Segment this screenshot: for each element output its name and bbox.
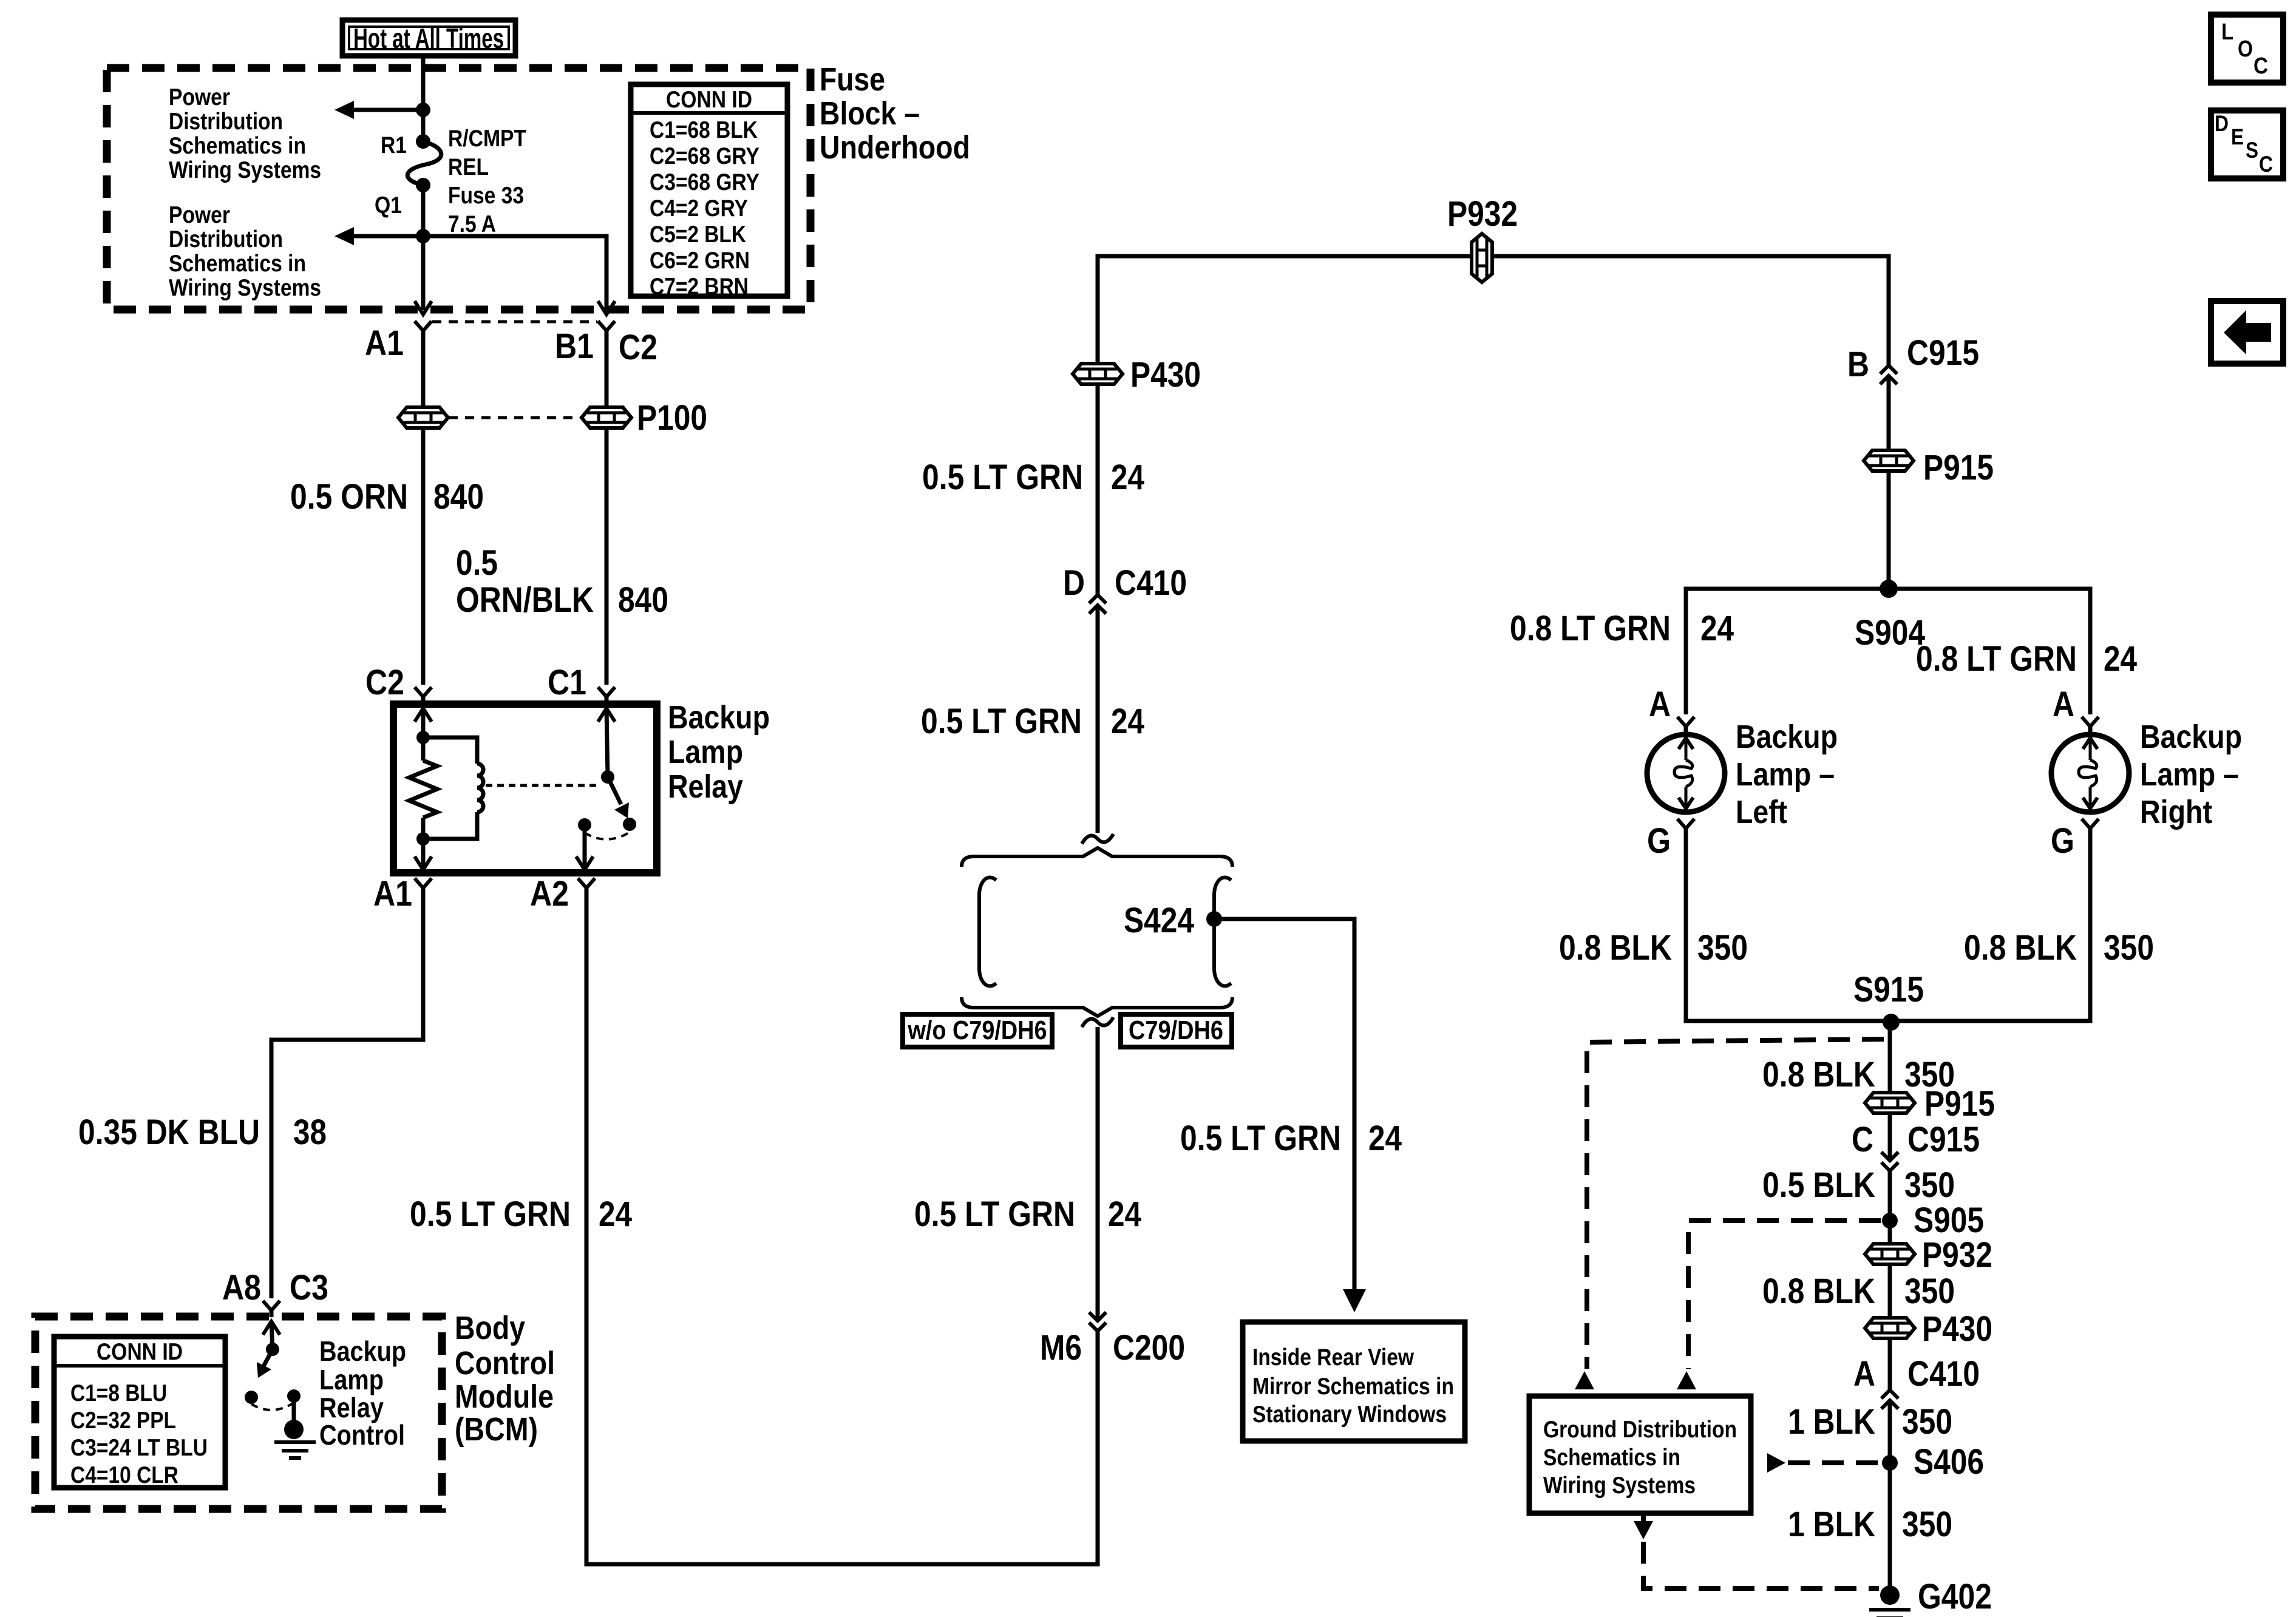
resistor (relay): [409, 737, 437, 839]
svg-text:0.8 BLK: 0.8 BLK: [1762, 1055, 1875, 1094]
CONN ID table (fuse block): [631, 84, 787, 300]
connector C410 (double chevron up): [1089, 595, 1106, 614]
svg-text:Relay: Relay: [668, 768, 743, 805]
banner box "Hot at All Times": [342, 20, 515, 56]
connector at right lamp A: [2082, 717, 2099, 727]
coil (relay): [423, 737, 483, 839]
connector below relay A2: [578, 878, 595, 888]
wire from fuse to lower junction: [421, 185, 426, 310]
svg-text:Underhood: Underhood: [820, 129, 970, 166]
svg-text:G: G: [2051, 821, 2074, 861]
svg-text:Q1: Q1: [375, 192, 402, 219]
switch fixed contact node: [578, 818, 591, 832]
svg-text:A2: A2: [530, 874, 569, 914]
wire B1 to P100: [605, 331, 609, 407]
fuse block dashed box: [107, 68, 810, 310]
wire A2 down and right (0.5 LT GRN 24): [586, 888, 1098, 1564]
svg-text:S: S: [2246, 138, 2258, 163]
arrow exiting fuse block at A1: [415, 301, 432, 314]
svg-text:D: D: [2215, 111, 2229, 136]
svg-text:0.5 LT GRN: 0.5 LT GRN: [410, 1195, 571, 1234]
svg-text:Module: Module: [455, 1378, 554, 1415]
arrowhead into Inside Rear View box: [1343, 1289, 1366, 1312]
svg-text:Control: Control: [319, 1419, 405, 1451]
svg-text:0.5 ORN: 0.5 ORN: [290, 477, 408, 517]
wire contact to A2 with arrow out of relay: [576, 825, 593, 870]
svg-text:Schematics in: Schematics in: [169, 133, 306, 159]
svg-text:C915: C915: [1907, 1120, 1980, 1159]
svg-text:C6=2 GRN: C6=2 GRN: [650, 248, 750, 274]
BCM switch pivot node: [266, 1343, 279, 1356]
svg-text:C5=2 BLK: C5=2 BLK: [650, 222, 746, 248]
reference box Inside Rear View Mirror: [1243, 1322, 1465, 1441]
svg-text:350: 350: [1904, 1272, 1955, 1311]
connector C410 (double chevron up): [1881, 1390, 1898, 1409]
wire 0.5 LT GRN 24 (below C410): [1096, 605, 1100, 833]
grommet P932 (inline, vertical): [1472, 234, 1492, 282]
dashed reference from S915: [1587, 1039, 1884, 1369]
svg-text:O: O: [2238, 36, 2253, 62]
svg-text:A: A: [1853, 1354, 1875, 1394]
LOC index box: [2211, 15, 2283, 83]
wire S905 to P932: [1888, 1221, 1892, 1244]
top brace: [962, 848, 1232, 867]
svg-text:Stationary Windows: Stationary Windows: [1252, 1402, 1447, 1428]
svg-text:M6: M6: [1040, 1328, 1082, 1368]
connector C915 (double chevron up): [1880, 365, 1897, 384]
svg-text:Left: Left: [1736, 794, 1787, 830]
switch pivot node: [601, 770, 614, 784]
svg-text:Ground Distribution: Ground Distribution: [1543, 1417, 1737, 1443]
svg-text:C4=10 CLR: C4=10 CLR: [70, 1462, 178, 1488]
svg-text:0.8 LT GRN: 0.8 LT GRN: [1510, 609, 1671, 648]
wire P915 to C915 connector: [1888, 1113, 1892, 1161]
splice S406 node: [1882, 1455, 1898, 1471]
wire S915 down ground chain: [1888, 1021, 1892, 1093]
svg-text:S915: S915: [1853, 970, 1924, 1009]
connector C915 (double chevron down): [1881, 1152, 1898, 1171]
svg-text:Wiring Systems: Wiring Systems: [1543, 1473, 1696, 1499]
svg-text:(BCM): (BCM): [455, 1411, 538, 1448]
backup lamp right: [2051, 727, 2129, 812]
grommet P915 (top): [1864, 450, 1914, 471]
wire resistor bottom to A1 with arrow out of relay: [415, 839, 432, 870]
backup lamp left: [1647, 727, 1725, 812]
svg-text:840: 840: [618, 580, 668, 620]
wire P430 to C410: [1888, 1338, 1892, 1390]
svg-text:Distribution: Distribution: [169, 226, 283, 253]
grommet P100 (right): [582, 407, 631, 428]
svg-text:S406: S406: [1914, 1442, 1984, 1482]
svg-text:P932: P932: [1447, 194, 1518, 234]
note Power Distribution Schematics (top): [169, 84, 321, 183]
svg-text:C2=32 PPL: C2=32 PPL: [70, 1408, 176, 1434]
connector at relay C2: [415, 687, 432, 697]
svg-text:D: D: [1063, 563, 1085, 603]
fuse R/CMPT REL Fuse 33 7.5A: [407, 134, 441, 192]
svg-text:350: 350: [1904, 1165, 1955, 1205]
switch arm end node: [623, 818, 636, 831]
svg-text:1 BLK: 1 BLK: [1788, 1402, 1875, 1442]
dashed travel arc: [585, 832, 630, 839]
svg-text:24: 24: [1111, 702, 1144, 741]
svg-text:Lamp –: Lamp –: [1736, 756, 1835, 793]
svg-text:C3=24 LT BLU: C3=24 LT BLU: [70, 1435, 208, 1461]
wire break symbol (below brace): [1082, 1017, 1113, 1027]
svg-text:350: 350: [1902, 1505, 1952, 1544]
connector at right lamp G: [2082, 819, 2099, 829]
wire C915 to P915: [1887, 376, 1891, 450]
svg-text:Body: Body: [455, 1310, 525, 1346]
wire brace to M6 connector: [1096, 1027, 1100, 1321]
svg-text:Schematics in: Schematics in: [1543, 1445, 1680, 1471]
svg-text:Backup: Backup: [2140, 719, 2242, 755]
svg-text:Lamp: Lamp: [668, 734, 743, 770]
wire S406 to G402: [1888, 1463, 1892, 1592]
dashed reference from S905: [1688, 1221, 1881, 1369]
svg-text:Power: Power: [169, 202, 230, 228]
svg-text:Right: Right: [2140, 794, 2212, 830]
svg-text:B: B: [1847, 345, 1869, 384]
triangle reference (left): [1575, 1371, 1594, 1389]
svg-text:C2: C2: [619, 328, 657, 367]
connector below relay A1: [415, 878, 432, 888]
svg-text:24: 24: [2104, 639, 2137, 679]
svg-text:C4=2 GRY: C4=2 GRY: [650, 195, 748, 222]
back arrow box: [2211, 301, 2283, 364]
dashed connector link A1-B1: [432, 320, 597, 324]
svg-text:840: 840: [433, 477, 484, 517]
grommet P100 (left): [398, 407, 448, 428]
arrow into relay at C2: [415, 708, 432, 737]
wire 0.5 BLK segment: [1888, 1171, 1892, 1221]
svg-text:Schematics in: Schematics in: [169, 251, 306, 277]
svg-text:C200: C200: [1113, 1328, 1185, 1368]
svg-text:Backup: Backup: [1736, 719, 1838, 755]
svg-text:S905: S905: [1914, 1201, 1984, 1240]
svg-text:Hot at All Times: Hot at All Times: [353, 22, 504, 54]
connector C200 (double chevron down): [1089, 1312, 1106, 1331]
option box w/o C79/DH6: [903, 1014, 1052, 1047]
wire branch to B1 terminal: [423, 236, 606, 310]
svg-text:Control: Control: [455, 1345, 555, 1381]
svg-text:C79/DH6: C79/DH6: [1129, 1015, 1223, 1045]
stem C1 into relay: [605, 697, 609, 705]
stem C2 into relay: [421, 697, 426, 705]
svg-text:Mirror Schematics in: Mirror Schematics in: [1252, 1374, 1454, 1400]
connector C2(fuse side) at A1: [415, 321, 432, 331]
svg-text:ORN/BLK: ORN/BLK: [456, 580, 594, 620]
svg-text:Distribution: Distribution: [169, 109, 283, 135]
svg-text:0.5 LT GRN: 0.5 LT GRN: [922, 458, 1083, 497]
svg-text:0.5 LT GRN: 0.5 LT GRN: [1180, 1119, 1341, 1158]
svg-text:P430: P430: [1130, 355, 1201, 395]
svg-text:C1: C1: [548, 663, 586, 702]
svg-text:L: L: [2221, 19, 2233, 45]
svg-text:38: 38: [293, 1113, 327, 1152]
svg-text:C2=68 GRY: C2=68 GRY: [650, 143, 759, 169]
connector at left lamp G: [1677, 819, 1694, 829]
label Backup Lamp - Left: [1736, 719, 1838, 830]
svg-text:Inside Rear View: Inside Rear View: [1252, 1344, 1415, 1371]
relay box Backup Lamp Relay: [393, 704, 657, 873]
wire break symbol (above brace): [1082, 834, 1113, 844]
triangle reference (right): [1677, 1371, 1696, 1389]
label Body Control Module (BCM): [455, 1310, 555, 1448]
BCM switch right contact node: [287, 1389, 301, 1403]
svg-text:CONN ID: CONN ID: [666, 87, 752, 113]
reference box Ground Distribution: [1529, 1396, 1751, 1513]
svg-text:Backup: Backup: [668, 699, 770, 736]
svg-text:Block –: Block –: [820, 95, 920, 132]
wire S424 branch right/down: [1214, 919, 1354, 1290]
arrow into relay at C1: [598, 708, 615, 777]
svg-text:24: 24: [599, 1195, 632, 1234]
svg-text:0.5 LT GRN: 0.5 LT GRN: [921, 702, 1082, 741]
svg-text:C1=8 BLU: C1=8 BLU: [70, 1380, 167, 1406]
svg-text:Wiring Systems: Wiring Systems: [169, 275, 321, 301]
svg-text:C: C: [2254, 53, 2268, 79]
svg-text:A: A: [2053, 685, 2074, 724]
label Backup Lamp Relay Control: [319, 1335, 406, 1451]
svg-text:Fuse 33: Fuse 33: [448, 183, 524, 209]
svg-text:0.8 LT GRN: 0.8 LT GRN: [1916, 639, 2077, 679]
left bracket (splice group): [979, 878, 996, 986]
svg-text:CONN ID: CONN ID: [97, 1339, 183, 1365]
svg-text:A8: A8: [222, 1268, 261, 1307]
wire 0.5 LT GRN 24 (above D C410): [1096, 384, 1100, 595]
svg-text:Lamp: Lamp: [319, 1364, 384, 1395]
svg-text:C410: C410: [1115, 563, 1187, 603]
wire A1 to P100: [421, 331, 426, 407]
wire P932 to P430: [1888, 1264, 1892, 1318]
svg-text:350: 350: [1902, 1402, 1952, 1442]
svg-text:S424: S424: [1124, 901, 1194, 940]
BCM switch fixed contact node: [245, 1391, 258, 1404]
svg-text:C1=68 BLK: C1=68 BLK: [650, 117, 758, 143]
wire label 0.5 ORN/BLK: [456, 543, 594, 620]
svg-text:0.5: 0.5: [456, 543, 498, 583]
svg-text:24: 24: [1700, 609, 1734, 648]
splice S905 node: [1882, 1213, 1898, 1229]
svg-text:P915: P915: [1923, 448, 1994, 487]
BCM dashed box: [35, 1317, 442, 1509]
svg-text:0.8 BLK: 0.8 BLK: [1762, 1272, 1875, 1311]
connector at left lamp A: [1677, 717, 1694, 727]
svg-text:S904: S904: [1855, 613, 1925, 653]
svg-text:0.5 BLK: 0.5 BLK: [1762, 1165, 1875, 1205]
grommet P932 (chain): [1865, 1244, 1915, 1264]
svg-text:P100: P100: [637, 398, 707, 438]
ground (BCM internal): [274, 1396, 316, 1458]
svg-text:1 BLK: 1 BLK: [1788, 1505, 1875, 1544]
svg-text:C410: C410: [1907, 1354, 1980, 1394]
svg-text:0.5 LT GRN: 0.5 LT GRN: [914, 1195, 1075, 1234]
right bracket (splice group): [1214, 878, 1231, 986]
svg-text:E: E: [2231, 124, 2244, 149]
wire P915 to S904: [1887, 471, 1891, 589]
svg-text:G: G: [1647, 821, 1671, 861]
grommet P915 (chain): [1865, 1093, 1915, 1113]
wire lamp feed bus: [1686, 589, 2090, 714]
splice S915 node: [1883, 1014, 1900, 1031]
dashed link between P100 grommets: [449, 416, 581, 419]
ground G402: [1869, 1585, 1911, 1617]
svg-text:R/CMPT: R/CMPT: [448, 126, 526, 152]
svg-text:Power: Power: [169, 84, 230, 110]
svg-text:24: 24: [1368, 1119, 1402, 1158]
label Backup Lamp - Right: [2140, 719, 2242, 830]
svg-text:P430: P430: [1922, 1309, 1992, 1349]
node coil bottom: [416, 832, 430, 846]
connector at relay C1: [598, 687, 615, 697]
arrow exiting fuse block at B1: [598, 301, 615, 314]
note Power Distribution Schematics (lower): [169, 202, 321, 301]
svg-text:R1: R1: [381, 132, 407, 158]
dashed actuator link: [486, 784, 601, 787]
svg-text:350: 350: [1697, 928, 1748, 968]
splice S904 node: [1880, 580, 1898, 598]
wire 0.5 ORN 840: [421, 428, 426, 685]
grommet P430 (middle): [1073, 364, 1123, 384]
wire 1 BLK segment: [1888, 1400, 1892, 1463]
wire lamp ground bus: [1686, 829, 2090, 1021]
wire A1 to BCM (0.35 DK BLU 38): [271, 888, 423, 1298]
svg-text:A: A: [1649, 685, 1671, 724]
svg-text:0.8 BLK: 0.8 BLK: [1559, 928, 1672, 968]
wire top horizontal P932 run: [1098, 256, 1889, 407]
svg-text:0.35 DK BLU: 0.35 DK BLU: [78, 1113, 260, 1152]
grommet P430 (chain): [1865, 1318, 1915, 1338]
svg-text:C2: C2: [365, 663, 404, 702]
svg-text:P932: P932: [1922, 1235, 1992, 1275]
switch arm with arrowhead: [608, 777, 629, 818]
svg-text:Fuse: Fuse: [820, 61, 885, 98]
wire arrow to Power Distribution schematics (lower): [335, 227, 423, 245]
wire 0.5 ORN/BLK 840: [605, 428, 609, 685]
svg-text:P915: P915: [1924, 1084, 1995, 1124]
label Backup Lamp Relay: [668, 699, 770, 805]
svg-text:C3: C3: [290, 1268, 328, 1307]
dashed reference to S406: [1788, 1460, 1880, 1465]
svg-text:C: C: [1852, 1120, 1873, 1159]
arrow into BCM: [263, 1321, 280, 1349]
BCM switch arm with arrowhead: [257, 1349, 273, 1378]
svg-text:C3=68 GRY: C3=68 GRY: [650, 169, 759, 195]
dashed travel arc (BCM): [251, 1403, 294, 1410]
svg-text:Wiring Systems: Wiring Systems: [169, 157, 321, 183]
svg-text:A1: A1: [373, 874, 412, 914]
splice S424 node: [1206, 911, 1222, 927]
svg-text:REL: REL: [448, 154, 489, 180]
CONN ID table (BCM): [54, 1337, 225, 1488]
fuse value label: [448, 126, 526, 237]
node junction to Power Distribution (lower): [416, 229, 430, 243]
bottom brace: [962, 997, 1232, 1016]
connector at B1: [598, 321, 615, 331]
option box C79/DH6: [1121, 1014, 1232, 1047]
svg-text:A1: A1: [365, 324, 404, 363]
DESC index box: [2211, 110, 2283, 178]
svg-text:C: C: [2259, 152, 2273, 177]
svg-text:Lamp –: Lamp –: [2140, 756, 2239, 793]
svg-text:350: 350: [2104, 928, 2154, 968]
dashed reference below Ground box to G402: [1634, 1513, 1879, 1588]
svg-text:Backup: Backup: [319, 1335, 406, 1367]
triangle reference (S406): [1767, 1453, 1785, 1473]
svg-text:B1: B1: [555, 327, 594, 366]
node coil top: [416, 731, 430, 744]
svg-text:0.8 BLK: 0.8 BLK: [1964, 928, 2077, 968]
wire from Hot box into fuse block: [421, 56, 426, 141]
svg-text:C915: C915: [1907, 333, 1979, 373]
label Fuse Block - Underhood: [820, 61, 970, 166]
svg-text:w/o C79/DH6: w/o C79/DH6: [908, 1015, 1047, 1045]
svg-text:7.5 A: 7.5 A: [448, 211, 496, 237]
svg-text:24: 24: [1111, 458, 1144, 497]
wire arrow to Power Distribution schematics (top): [335, 101, 423, 119]
svg-text:G402: G402: [1918, 1577, 1992, 1616]
node junction to Power Distribution (top): [416, 103, 430, 117]
svg-text:24: 24: [1108, 1195, 1141, 1234]
connector at BCM C3: [263, 1301, 280, 1317]
svg-text:C7=2 BRN: C7=2 BRN: [650, 274, 749, 300]
